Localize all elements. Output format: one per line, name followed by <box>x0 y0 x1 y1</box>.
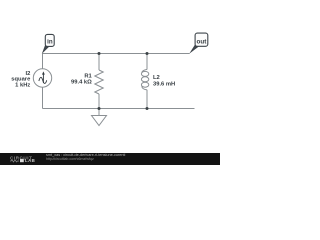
svg-text:in: in <box>47 38 53 45</box>
wire: bottom rail <box>43 108 195 110</box>
label I2 <box>11 71 31 89</box>
junction node top-L <box>146 52 149 55</box>
port out <box>189 33 208 54</box>
svg-text:R1: R1 <box>84 73 92 79</box>
ground <box>92 116 107 126</box>
svg-text:out: out <box>197 38 208 45</box>
wire: ground stub <box>98 109 100 116</box>
svg-text:1 kHz: 1 kHz <box>15 83 30 89</box>
junction node bottom-L <box>146 107 149 110</box>
port in <box>42 34 54 54</box>
label R1 <box>71 73 93 85</box>
svg-text:99.4 kΩ: 99.4 kΩ <box>71 79 92 85</box>
svg-text:L2: L2 <box>153 75 160 81</box>
wire: inductor column lower <box>146 90 148 109</box>
label L2 <box>153 75 175 87</box>
current source I2 <box>33 69 51 87</box>
wire: resistor column lower <box>98 94 100 109</box>
wire: resistor column upper <box>98 54 100 71</box>
wire: top rail from node in-corner to out pointer <box>43 53 190 55</box>
wire: inductor column upper <box>146 54 148 70</box>
wire: left vertical lower segment <box>42 87 44 108</box>
svg-text:http:⁄⁄circuitlab.com⁄c6mzfwfq: http:⁄⁄circuitlab.com⁄c6mzfwfqz <box>46 157 94 161</box>
svg-text:39.6 mH: 39.6 mH <box>153 81 175 87</box>
junction node bottom-R <box>98 107 101 110</box>
footer bar <box>0 153 220 165</box>
CircuitLab logo <box>10 155 35 163</box>
resistor R1 <box>95 70 103 94</box>
svg-text:LAB: LAB <box>25 158 35 163</box>
junction node top-R <box>98 52 101 55</box>
wire: left vertical upper segment <box>42 54 44 69</box>
inductor L2 <box>141 69 148 90</box>
